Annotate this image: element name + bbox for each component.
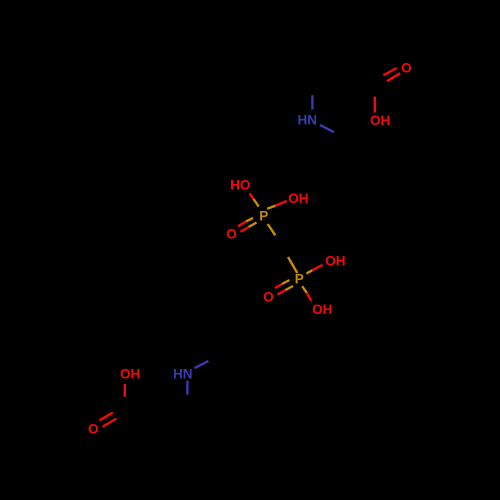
bond P1-CH2 gold half <box>268 224 276 235</box>
bond HO-P1 red half <box>250 193 254 199</box>
bond P2-OH lower gold half <box>302 286 307 293</box>
svg-text:OH: OH <box>288 191 308 206</box>
bond P2-OH lower red half <box>307 293 312 301</box>
bond P1=O lower line gold half <box>249 223 257 228</box>
bond N-CH3 diagonal BL <box>194 361 208 368</box>
svg-text:O: O <box>263 289 274 304</box>
bond P1=O upper line red half <box>238 222 246 227</box>
bond C-OH vertical TR <box>374 97 376 113</box>
bond P1-OH gold half <box>267 206 275 209</box>
bond C=O double (upper line) carboxyl BL <box>99 413 113 421</box>
bond P2-OH gold half <box>306 270 312 273</box>
bond P1-OH red half <box>276 201 287 206</box>
svg-text:OH: OH <box>370 113 390 128</box>
bond C-OH vertical BL <box>124 384 126 397</box>
svg-text:HO: HO <box>230 178 250 193</box>
svg-text:OH: OH <box>325 254 345 269</box>
bond HO-P1 gold half <box>254 199 259 207</box>
bond P2=O lower line red half <box>278 290 286 295</box>
svg-text:O: O <box>88 422 99 437</box>
bond N-CH3 diagonal TR <box>320 125 334 132</box>
svg-text:OH: OH <box>120 367 140 382</box>
svg-text:HN: HN <box>298 113 318 128</box>
bond N-ring vertical BL <box>186 381 188 395</box>
bond C=O double (lower line) carboxyl BL <box>103 419 117 427</box>
bond P1=O lower line red half <box>241 227 249 232</box>
svg-text:HN: HN <box>173 367 193 382</box>
svg-text:OH: OH <box>312 302 332 317</box>
bond P1=O upper line gold half <box>246 218 253 222</box>
svg-text:P: P <box>259 209 268 224</box>
bond CH2-P2 gold half <box>288 257 297 273</box>
bond C=O double (lower line) carboxyl TR <box>387 73 400 81</box>
bond C=O double (upper line) carboxyl TR <box>383 68 396 75</box>
svg-text:O: O <box>226 227 237 242</box>
bond P2=O lower line gold half <box>286 286 294 290</box>
bond N-ring vertical TR <box>311 95 313 109</box>
svg-text:P: P <box>295 272 304 287</box>
bond P2=O upper line gold half <box>282 280 290 284</box>
bond P2-OH red half <box>312 265 322 270</box>
bond P2=O upper line red half <box>275 284 282 288</box>
svg-text:O: O <box>401 60 412 75</box>
